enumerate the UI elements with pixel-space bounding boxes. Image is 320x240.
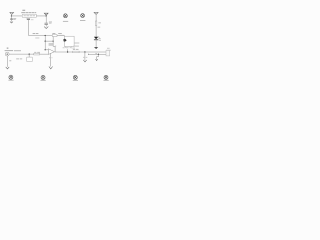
J1 value label MIC jack: [5, 50, 14, 51]
junction dot node D: [98, 54, 99, 55]
ground arrow GND7 (rail B): [96, 59, 98, 60]
wire output to J2: [79, 51, 108, 53]
wire +in stub: [45, 49, 48, 51]
LOGO4 label: [104, 80, 109, 81]
junction dot node A: [45, 35, 46, 36]
junction dot node VDD-mid: [46, 15, 47, 16]
junction dot on output at LS1 stub: [67, 51, 68, 52]
op-amp U2A triangle: [48, 49, 54, 55]
logo LOGO2 bottom: [41, 75, 45, 79]
resistor R6 (vertical box): [27, 57, 32, 61]
C1 value label: [13, 18, 16, 20]
LS1 reference label: [59, 35, 64, 36]
net label below wire: [35, 37, 39, 40]
U1 pin name row (inside box): [24, 14, 35, 17]
LOGO3 label: [73, 80, 78, 81]
GND flag bar under U1: [27, 18, 30, 21]
J1 reference label: [7, 48, 9, 49]
LS1 bottom pin stub 1: [65, 47, 67, 49]
ground arrow GND3 (LED chain): [94, 47, 98, 49]
pin texts beside stem: [83, 56, 87, 59]
resistor R5 (horizontal box): [34, 53, 40, 55]
IC U1 box: [22, 14, 36, 17]
ground arrow GND4 (op-amp): [49, 67, 53, 69]
ground GND2 (below C2): [44, 27, 48, 29]
wire H-link feedback: [45, 40, 53, 42]
C2 value label: [49, 22, 52, 24]
LOGO2 label: [41, 80, 46, 81]
logo LOGO1 bottom: [9, 75, 13, 79]
wire rail A (J1 to R5): [9, 53, 34, 55]
LS1 side label row 2: [73, 46, 79, 47]
wire stub into LS1 pin: [63, 35, 65, 38]
RV1 reference label: [52, 33, 55, 34]
power symbol PWR3 (LED chain top): [94, 13, 98, 15]
R4 reference label: [73, 49, 75, 50]
capacitor C2: [45, 16, 48, 27]
junction dot node B: [29, 54, 30, 55]
capacitor C1: [10, 16, 13, 22]
D1 value label LED: [99, 39, 101, 42]
MK2 label: [80, 20, 85, 21]
wire RV1 to LS1: [57, 35, 64, 37]
wire top rail right: [36, 15, 46, 17]
junction dot on V1: [45, 41, 46, 42]
wire J1 sleeve drop: [6, 56, 8, 67]
power symbol PWR1 (top-left VDD): [10, 13, 14, 17]
pin number texts beside V- stem: [49, 56, 52, 59]
logo MK2 (circle-X): [81, 14, 85, 18]
resistor R3 (vertical box): [95, 21, 97, 26]
wire PWR3 to R3: [95, 14, 97, 21]
ground GND1 (below C1): [10, 22, 13, 23]
junction dot op-amp +in: [45, 49, 46, 50]
net label on wire: [33, 33, 39, 34]
op-amp V- pin stem: [50, 53, 52, 66]
wire rail B (lower to J2): [88, 53, 108, 55]
R6 value label: [20, 57, 22, 60]
logo LOGO4 bottom: [104, 75, 108, 79]
pin text on sleeve wire: [9, 60, 11, 61]
U1 reference label: [22, 10, 25, 11]
resistor R4 (horizontal box): [73, 51, 79, 53]
U2A reference label: [49, 43, 53, 44]
LOGO1 label: [8, 80, 13, 81]
wire rail A (R5 to op-amp -in): [40, 53, 49, 55]
wire op-amp output: [54, 51, 72, 53]
connector J1 (mic jack circle): [5, 52, 9, 56]
LS1 bottom pin stub 2: [70, 47, 72, 49]
R5 reference label: [34, 51, 36, 54]
junction dot on H-link right: [53, 41, 54, 42]
stub on rail B at LED column: [95, 53, 97, 54]
power symbol PWR2 (mid VDD): [44, 13, 48, 16]
U1 pin number row (below box): [25, 16, 32, 19]
LS1 side label row 1: [74, 43, 79, 44]
wire top rail left: [11, 15, 22, 17]
wire dogleg node D to ground: [97, 54, 99, 59]
LS1 pin number texts below box: [63, 47, 75, 48]
GND net label under U1: [27, 17, 30, 20]
ground arrow GND5 (J1 sleeve): [6, 67, 9, 69]
wire U1 bottom drop: [28, 20, 30, 36]
speaker LS1 box: [64, 36, 74, 46]
wire V2 (RV1 wiper down): [53, 37, 55, 52]
wire node C ground stem: [84, 52, 86, 60]
wire V1 (node A down to op-amp +in): [44, 36, 46, 50]
D1 reference label: [99, 37, 101, 40]
logo LOGO3 bottom: [73, 75, 77, 79]
rail B start nub: [87, 53, 90, 56]
R3 reference label: [98, 21, 101, 24]
wire R3 to D1: [95, 26, 97, 37]
wire D1 to gnd arrow: [95, 40, 97, 47]
pin number 8 text: [54, 45, 57, 48]
junction dot node VDD-left: [11, 15, 12, 16]
J2 value label: [106, 49, 111, 52]
R5 value label: [37, 51, 40, 54]
junction dot node C: [84, 51, 85, 52]
RV1 value label: [58, 33, 62, 34]
connector J2 box: [106, 50, 110, 56]
wire R6 drop: [28, 54, 30, 57]
R6 reference label: [16, 57, 19, 60]
U1 value label TLC555: [21, 12, 36, 13]
LED D1: [94, 36, 100, 40]
logo MK1 (circle-X): [63, 14, 67, 18]
wire net THRES (U1 to RV1): [29, 35, 53, 37]
MK1 label: [63, 21, 68, 22]
R4 value label: [76, 49, 79, 50]
potentiometer RV1 box: [52, 35, 57, 37]
LS1 speaker glyph: [64, 38, 67, 42]
ground arrow GND6 (node C): [83, 60, 86, 62]
J2 reference label: [107, 48, 110, 49]
pin number text right of flag: [31, 18, 34, 21]
wire stub LS1 to output: [67, 49, 69, 52]
R3 value label: [98, 26, 101, 29]
U2A value label: [49, 45, 54, 46]
